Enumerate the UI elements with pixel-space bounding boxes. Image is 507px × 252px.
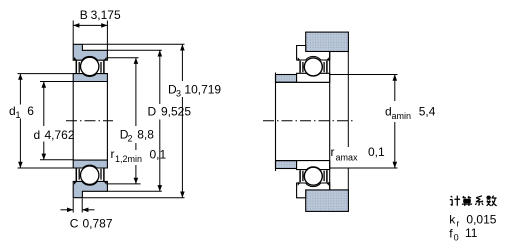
shield marks bottom-right: [103, 168, 105, 181]
svg-text:10,719: 10,719: [184, 83, 221, 97]
ball top: [81, 57, 99, 75]
ball bottom: [81, 166, 99, 184]
outer ring bottom section with flange foot (blue): [73, 181, 107, 197]
svg-text:5,4: 5,4: [419, 105, 436, 119]
svg-text:3,175: 3,175: [91, 8, 121, 22]
svg-text:0,1: 0,1: [368, 145, 385, 159]
svg-text:1,2min: 1,2min: [115, 154, 142, 164]
d_a extension lines: [330, 74, 398, 76]
计: [450, 196, 460, 206]
dimension C extension lines: [72, 199, 74, 213]
D3 extension lines (top flange edge + bottom foot edge): [82, 43, 184, 45]
svg-text:0: 0: [454, 233, 459, 243]
shaft shoulder tab bottom: [276, 161, 297, 169]
svg-text:0,787: 0,787: [83, 217, 113, 231]
right shields top: [299, 61, 301, 73]
dimension d1 extension lines: [18, 73, 74, 75]
right bearing outer ring top with flange (white): [297, 46, 330, 61]
right bearing inner ring top (white): [297, 73, 330, 82]
svg-text:r: r: [331, 145, 335, 159]
svg-text:2: 2: [128, 134, 133, 144]
dimension D2 line: [135, 58, 137, 126]
dimension D line: [159, 50, 161, 104]
heading 计算系数 drawn as vector strokes (CJK font may be unavailable): [450, 196, 497, 206]
inner ring top section (blue): [73, 74, 107, 82]
centerline left drawing: [66, 120, 113, 122]
right bearing outer ring bottom with flange (white): [297, 183, 330, 198]
svg-text:8,8: 8,8: [137, 128, 154, 142]
svg-text:C: C: [70, 217, 79, 231]
shaft bore line top: [276, 81, 330, 83]
right shields bottom: [299, 170, 301, 182]
dimension C arrows outside: [61, 209, 74, 211]
svg-text:0,015: 0,015: [466, 213, 496, 227]
inner ring bottom section (blue): [73, 160, 107, 168]
svg-text:11: 11: [465, 226, 478, 240]
svg-text:d: d: [34, 128, 41, 142]
housing block top: [306, 32, 349, 51]
svg-text:B: B: [80, 8, 88, 22]
right ball bottom: [304, 167, 322, 185]
dimension d line: [43, 82, 45, 127]
svg-text:amin: amin: [392, 111, 412, 121]
svg-text:9,525: 9,525: [161, 105, 191, 119]
right ball top: [304, 58, 322, 76]
shaft bore line bottom: [276, 160, 330, 162]
shield marks top-right: [103, 61, 105, 74]
D extension lines: [107, 49, 161, 51]
svg-text:D: D: [148, 105, 157, 119]
right bearing inner ring bottom (white): [297, 161, 330, 170]
svg-text:k: k: [449, 213, 456, 227]
数: [486, 196, 496, 206]
svg-text:4,762: 4,762: [45, 128, 75, 142]
shield marks top-left: [75, 61, 77, 74]
right bearing right face line: [329, 52, 331, 190]
bore face line left: [72, 82, 74, 161]
D2 extension lines: [107, 57, 138, 59]
shield marks bottom-left: [75, 168, 77, 181]
housing face line: [347, 52, 349, 148]
dimension B extension lines: [72, 21, 74, 45]
dimension d_a line: [394, 75, 396, 102]
svg-text:r: r: [456, 219, 459, 229]
shaft end face line: [275, 73, 277, 172]
svg-text:amax: amax: [336, 153, 359, 163]
svg-text:1: 1: [16, 110, 21, 120]
bore face line right: [106, 82, 108, 161]
outer ring top section with flange (blue): [73, 44, 107, 60]
shaft shoulder tab top: [276, 75, 297, 83]
svg-text:6: 6: [27, 104, 34, 118]
dimension B line: [73, 24, 107, 26]
svg-text:r: r: [111, 147, 115, 161]
centerline right drawing: [263, 120, 354, 122]
dimension d extension lines: [40, 81, 73, 83]
housing block bottom: [306, 190, 349, 212]
svg-text:0,1: 0,1: [150, 148, 167, 162]
系: [475, 196, 483, 206]
dimension d1 line: [19, 74, 21, 105]
算: [462, 196, 472, 206]
svg-text:3: 3: [176, 89, 181, 99]
dimension D3 line: [181, 44, 183, 81]
